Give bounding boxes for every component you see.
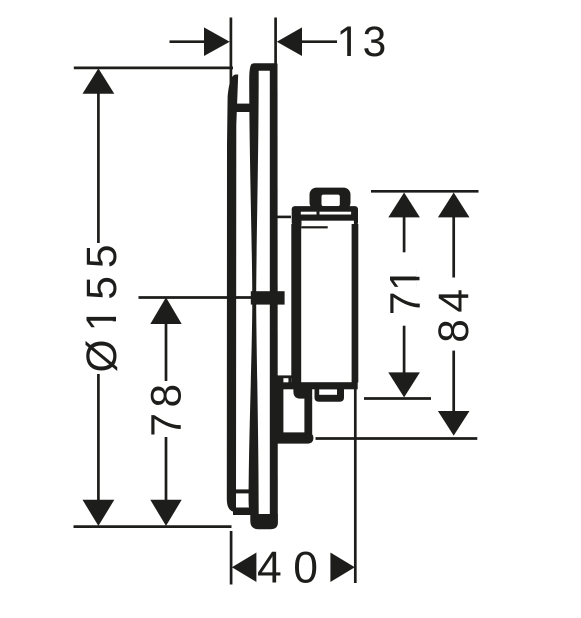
spindle hub: [251, 291, 285, 304]
valve body left wall: [291, 224, 301, 383]
valve body bottom band: [270, 382, 357, 389]
plate-sleeve bottom merge: [233, 508, 251, 516]
upper connector plate to valve: [278, 216, 292, 219]
serif masks for digit 1: [112, 52, 420, 329]
dim diameter line lower: [97, 374, 100, 501]
arrowhead 84 up: [438, 193, 470, 218]
arrowhead 13 right: [277, 27, 302, 56]
dim 71 line lower: [403, 326, 406, 374]
arrowhead 40 left: [232, 553, 257, 583]
lower connector plate to valve: [271, 375, 292, 378]
ext line 71 bottom: [364, 397, 431, 400]
dim diameter line upper: [97, 92, 100, 243]
ext line 78: [139, 296, 253, 299]
plate-sleeve bridge top: [235, 104, 250, 112]
white notch: [284, 378, 289, 382]
handle sleeve rear (B): [249, 64, 259, 519]
ext line diameter top: [74, 67, 233, 70]
body inner line: [301, 226, 328, 228]
ext line 13 right: [274, 18, 277, 65]
dim 84 line lower: [452, 351, 455, 413]
arrowhead diameter up: [83, 68, 115, 93]
dim 84 line upper: [452, 215, 455, 278]
knob on top of valve body: [310, 188, 351, 210]
arrowhead 78 up: [150, 297, 181, 324]
ext line 84 bottom: [316, 437, 478, 440]
arrowhead 13 left: [204, 27, 230, 56]
arrowhead 78 down: [150, 500, 181, 526]
dim 13 right arrow tail: [300, 40, 337, 43]
dim 13 left arrow tail: [170, 40, 207, 43]
sleeve bottom cap: [250, 514, 277, 529]
svg-text:71: 71: [383, 267, 430, 315]
stop ring below valve: [315, 385, 345, 402]
valve body right wall: [352, 224, 359, 383]
svg-text:78: 78: [144, 378, 191, 436]
plate-sleeve bridge bottom: [235, 489, 251, 493]
ext line 40 right: [354, 389, 357, 583]
sleeve front (C): [270, 64, 278, 529]
ext line diameter bottom: [74, 525, 232, 528]
arrowhead diameter down: [83, 500, 115, 526]
svg-text:13: 13: [337, 19, 389, 66]
svg-text:84: 84: [431, 282, 478, 342]
dim 71 line upper: [403, 215, 406, 252]
ext line 13 left: [230, 18, 233, 85]
arrowhead 84 down: [438, 411, 470, 436]
dim 78 line lower: [165, 437, 168, 501]
valve flange: [292, 206, 358, 225]
body foot and pipe right wall top: [293, 389, 312, 399]
svg-text:Ø155: Ø155: [79, 237, 126, 373]
sleeve top cap: [251, 63, 278, 71]
merged pipe left column: [270, 378, 283, 438]
arrowhead 71 down: [388, 372, 420, 397]
supply pipe right wall: [304, 398, 312, 434]
ext line 40 left: [230, 531, 233, 585]
wall plate left profile: [227, 75, 238, 512]
knob foot bridge: [317, 212, 320, 215]
supply pipe bottom: [271, 432, 314, 443]
svg-text:40: 40: [257, 543, 330, 592]
dim 78 line upper: [165, 322, 168, 381]
ext line 71 84 top: [371, 190, 479, 193]
arrowhead 40 right: [330, 553, 354, 583]
arrowhead 71 up: [388, 193, 420, 218]
box wall corner above band: [288, 376, 291, 383]
